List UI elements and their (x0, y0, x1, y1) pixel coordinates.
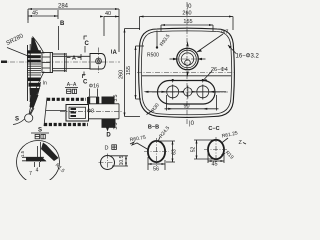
dimension 45 (28, 10, 58, 23)
svg-text:B−B: B−B (148, 125, 159, 131)
dim 56 (147, 157, 149, 170)
dimension 284 (28, 4, 119, 53)
svg-text:D: D (105, 146, 109, 152)
plate inner contour (141, 31, 231, 115)
svg-text:C−C: C−C (208, 126, 219, 132)
svg-text:26−Φ4: 26−Φ4 (211, 67, 228, 73)
svg-text:R500: R500 (147, 53, 159, 59)
svg-text:|0: |0 (187, 4, 193, 10)
dimension 40 (100, 11, 119, 36)
stadium boss (158, 81, 216, 105)
funnel hatch bands (27, 50, 41, 62)
funnel lip wedge down to S circle (30, 95, 39, 108)
svg-text:1.5: 1.5 (20, 150, 25, 157)
svg-text:|0: |0 (189, 121, 195, 127)
dim 10.5 (109, 155, 128, 157)
inner profile (40, 142, 42, 162)
dim 4 (34, 162, 36, 167)
svg-text:S: S (15, 117, 19, 123)
neck tube (53, 53, 67, 55)
plate centerline vertical (186, 2, 188, 124)
D view arrow (107, 122, 109, 130)
svg-text:155: 155 (183, 19, 192, 25)
svg-text:A: A (113, 50, 118, 56)
funnel lower dark seal (30, 88, 41, 96)
circle (101, 156, 115, 170)
detail circle (17, 141, 60, 184)
neck collar (42, 53, 53, 73)
dim 63 (158, 140, 175, 142)
section label B (59, 21, 66, 50)
svg-text:3.5: 3.5 (113, 122, 119, 129)
plate centerline horizontal mid (137, 72, 236, 74)
plate outline (139, 28, 235, 117)
hatched flange bottom (102, 119, 116, 128)
svg-text:A: A (72, 56, 76, 62)
centerline of neck (1, 61, 120, 63)
tube joint lines (64, 53, 66, 72)
svg-text:ln: ln (43, 81, 47, 87)
left box of A-A (66, 105, 89, 122)
plate feature line below boss (142, 75, 231, 77)
svg-text:16−Φ3.2: 16−Φ3.2 (236, 54, 260, 60)
svg-text:10.5: 10.5 (119, 155, 125, 165)
svg-text:C: C (83, 80, 88, 86)
right tube of A-A (89, 103, 120, 105)
central boss circles (177, 48, 199, 70)
ellipse (208, 140, 224, 159)
funnel wall hatched bands (left of section) (47, 98, 86, 101)
cap tip circles (96, 58, 102, 64)
svg-text:45: 45 (211, 161, 217, 167)
svg-text:D: D (106, 133, 111, 139)
svg-text:B: B (60, 21, 65, 27)
neck cap (90, 54, 106, 70)
svg-text:A−A: A−A (67, 82, 77, 88)
right hole (197, 86, 209, 98)
funnel top wedge (31, 38, 43, 54)
svg-text:4: 4 (36, 168, 39, 174)
svg-text:56: 56 (153, 167, 159, 173)
svg-text:260: 260 (118, 70, 124, 79)
arrow mark far left on centerline (1, 61, 7, 64)
label SR280 (6, 33, 32, 58)
dim 52 (194, 139, 214, 141)
svg-text:7: 7 (29, 171, 32, 177)
hatched flange top (102, 97, 115, 105)
svg-text:3.5: 3.5 (113, 94, 119, 101)
top stub (89, 97, 99, 104)
panel glass edge (left vertical lines) (27, 45, 29, 101)
S detail circle (25, 114, 33, 122)
ellipse (148, 141, 165, 162)
svg-text:63: 63 (172, 149, 178, 155)
dim 45 (207, 152, 209, 163)
funnel body outline (33, 37, 45, 54)
svg-text:155: 155 (126, 66, 132, 75)
boss side arrows (170, 58, 176, 60)
left hole (167, 86, 179, 98)
stadium centerline (152, 91, 228, 93)
middle hole (184, 88, 192, 96)
svg-text:52: 52 (191, 147, 197, 153)
